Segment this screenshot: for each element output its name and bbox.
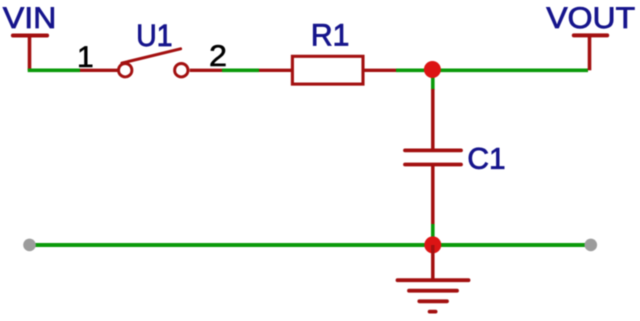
capacitor C1 label xyxy=(469,148,504,169)
terminal dot left xyxy=(23,239,36,252)
node VOUT label xyxy=(546,7,634,28)
ground bar 1 xyxy=(398,278,469,282)
capacitor C1 bottom plate xyxy=(405,163,461,167)
switch U1 label xyxy=(138,25,171,47)
pin number 1 xyxy=(79,46,92,67)
switch U1 lever xyxy=(122,49,181,63)
ground bar 3 xyxy=(419,299,447,303)
terminal VIN stem xyxy=(28,36,32,71)
switch U1 lead pin 1 xyxy=(80,69,118,72)
resistor R1 label xyxy=(313,24,348,45)
wire R1 to VOUT xyxy=(396,69,588,73)
terminal VOUT bar xyxy=(574,33,607,37)
wire VIN to switch pin 1 xyxy=(28,69,80,73)
resistor R1 right lead xyxy=(365,69,397,72)
resistor R1 left lead xyxy=(259,69,292,72)
node VIN label xyxy=(3,7,54,28)
wire ground rail xyxy=(30,243,591,247)
pin number 2 xyxy=(211,45,226,66)
wire C1 to ground rail xyxy=(431,224,435,245)
ground bar 4 xyxy=(430,310,436,314)
terminal VOUT stem xyxy=(588,35,592,70)
junction node bottom xyxy=(424,236,441,253)
capacitor C1 top lead xyxy=(431,89,435,152)
wire junction to C1 top xyxy=(431,70,435,90)
ground bar 2 xyxy=(409,289,457,293)
wire switch to R1 xyxy=(222,69,259,73)
capacitor C1 top plate xyxy=(405,148,461,152)
resistor R1 body xyxy=(292,56,363,84)
ground lead xyxy=(431,245,435,279)
junction node top xyxy=(424,61,441,78)
switch U1 contact circle 2 xyxy=(175,63,188,76)
switch U1 contact circle 1 xyxy=(119,63,132,76)
capacitor C1 bottom lead xyxy=(431,164,435,225)
terminal dot right xyxy=(585,239,598,252)
terminal VIN bar xyxy=(13,34,47,38)
switch U1 lead pin 2 xyxy=(190,69,222,72)
